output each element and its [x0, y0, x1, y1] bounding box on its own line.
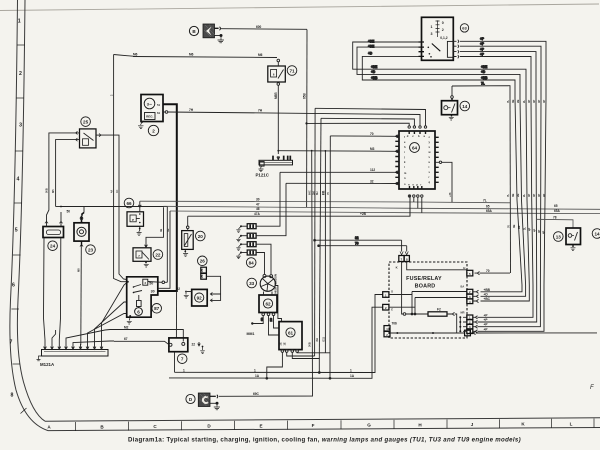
board MR connector pins — [459, 311, 488, 334]
svg-text:MR: MR — [461, 311, 465, 315]
svg-text:E: E — [391, 308, 393, 312]
svg-text:3: 3 — [431, 32, 433, 36]
svg-text:M8: M8 — [77, 268, 81, 272]
svg-text:7L: 7L — [506, 194, 510, 197]
relay 71 (charge warning) — [268, 59, 297, 85]
svg-text:8H: 8H — [315, 338, 319, 341]
svg-text:E11: E11 — [321, 190, 325, 195]
svg-text:F: F — [590, 385, 594, 391]
wire 70 to cluster left pin — [326, 132, 397, 353]
svg-text:2: 2 — [442, 28, 444, 32]
feed wires bracket left of switch — [353, 39, 526, 98]
wire 46 branch down to starter — [158, 211, 170, 288]
bottom border band with grid letters — [45, 418, 600, 431]
connector D (hatched) bottom — [186, 393, 220, 410]
svg-text:4P: 4P — [537, 100, 541, 103]
ground below connector B — [218, 37, 225, 43]
earth connectors 84 (x4) — [236, 224, 256, 268]
svg-text:1A: 1A — [350, 374, 355, 378]
svg-text:112: 112 — [370, 168, 375, 172]
svg-text:2M: 2M — [311, 191, 315, 195]
wires from relay 25 left down (50B / M5) — [45, 133, 76, 222]
bundle wire labels lower row — [507, 225, 546, 234]
svg-text:M6: M6 — [258, 53, 263, 57]
svg-text:7H: 7H — [189, 108, 194, 112]
svg-text:HIGH TENSION: HIGH TENSION — [274, 274, 278, 293]
svg-text:f: f — [404, 135, 405, 139]
svg-text:4P: 4P — [537, 194, 541, 197]
svg-text:2C: 2C — [269, 318, 273, 321]
svg-text:8: 8 — [11, 393, 14, 399]
svg-text:22: 22 — [177, 287, 181, 291]
cluster left pin terminals — [396, 135, 398, 137]
board BA connector pins — [461, 285, 491, 304]
svg-text:4P: 4P — [532, 100, 536, 103]
svg-text:L: L — [570, 421, 573, 426]
feed wires to board connectors — [314, 236, 407, 247]
svg-text:32: 32 — [370, 179, 374, 183]
wire 47 / 65 — [164, 202, 600, 209]
svg-text:69C: 69C — [308, 190, 312, 195]
svg-text:2E: 2E — [278, 342, 282, 345]
wire M3 from P121C to cluster — [278, 147, 396, 151]
svg-text:14: 14 — [594, 231, 600, 236]
wire M2 — [110, 325, 183, 341]
node MM1 — [247, 316, 264, 337]
diagnostic connector 26 — [198, 256, 221, 302]
svg-text:2L: 2L — [522, 194, 526, 197]
wire to cluster pin a from 65B node — [307, 123, 410, 126]
svg-text:2B: 2B — [260, 318, 264, 321]
svg-text:66: 66 — [126, 201, 132, 206]
thermal switch 66 — [124, 198, 143, 235]
svg-text:7: 7 — [181, 357, 184, 362]
svg-text:K: K — [396, 266, 398, 270]
svg-text:1: 1 — [350, 368, 352, 372]
svg-text:22: 22 — [155, 252, 161, 257]
svg-text:20: 20 — [198, 234, 204, 239]
border frame top line — [0, 4, 599, 11]
fuse box 24 — [43, 212, 64, 251]
caption — [128, 437, 521, 444]
svg-text:M6: M6 — [189, 53, 194, 57]
svg-text:47: 47 — [256, 202, 260, 206]
svg-text:1: 1 — [431, 25, 433, 29]
svg-text:32: 32 — [355, 236, 359, 240]
svg-text:5: 5 — [15, 228, 18, 234]
oil pressure warning switch 14 — [442, 96, 470, 120]
svg-text:2B: 2B — [516, 100, 520, 103]
svg-text:84: 84 — [249, 260, 255, 265]
svg-text:7L: 7L — [506, 100, 510, 103]
svg-text:1: 1 — [254, 368, 256, 372]
earth strip arrow terminals — [44, 344, 103, 350]
svg-text:7H: 7H — [258, 109, 263, 113]
svg-text:F: F — [312, 423, 315, 428]
svg-text:2: 2 — [152, 128, 155, 133]
svg-text:50B: 50B — [45, 188, 49, 193]
wire 67 — [114, 337, 169, 345]
svg-text:+BB: +BB — [484, 288, 491, 292]
svg-text:3: 3 — [19, 123, 22, 129]
svg-text:87: 87 — [154, 306, 160, 311]
bundle wire labels middle row — [506, 194, 546, 197]
svg-text:4B: 4B — [159, 229, 163, 232]
svg-text:2L: 2L — [523, 227, 527, 230]
svg-text:+2B: +2B — [360, 212, 367, 216]
svg-text:D: D — [391, 290, 393, 294]
svg-text:+36: +36 — [448, 192, 452, 197]
svg-text:6: 6 — [137, 309, 140, 314]
svg-text:M3: M3 — [370, 147, 375, 151]
svg-text:1: 1 — [183, 368, 185, 372]
svg-text:BOARD: BOARD — [415, 284, 436, 290]
svg-text:BA: BA — [461, 285, 465, 289]
wire 50 horizontal to solenoid switch 23 — [56, 206, 168, 283]
svg-text:MM1: MM1 — [247, 332, 255, 336]
svg-text:13: 13 — [556, 234, 562, 239]
board left pin 1 (wire 1) — [383, 290, 412, 298]
svg-text:61: 61 — [157, 111, 161, 115]
svg-text:64: 64 — [412, 145, 418, 150]
ignition feed unit 23 — [74, 216, 95, 345]
main harness bundle right side — [478, 98, 547, 331]
svg-text:67: 67 — [124, 337, 128, 341]
switched feed wires +P right of switch — [460, 37, 546, 98]
svg-text:51: 51 — [157, 103, 161, 107]
svg-text:P: P — [132, 218, 134, 222]
svg-text:F2: F2 — [437, 308, 441, 312]
svg-text:70: 70 — [355, 242, 359, 246]
svg-text:M121A: M121A — [40, 362, 55, 367]
svg-text:1A: 1A — [255, 374, 260, 378]
svg-text:2: 2 — [19, 71, 22, 77]
svg-text:600: 600 — [256, 25, 262, 29]
board top connectors 7 and 8 — [399, 240, 410, 261]
alternator 2 — [141, 95, 163, 136]
wire 7L with oil switch branch — [452, 82, 510, 99]
starter motor assembly 87 — [127, 277, 168, 324]
wire 46 / 65A — [170, 207, 600, 214]
connector B (hatched) top left — [189, 24, 222, 38]
svg-text:6: 6 — [12, 283, 15, 289]
distributor 33 — [247, 274, 276, 291]
svg-text:69C: 69C — [253, 392, 260, 396]
ignition module 62 — [259, 292, 277, 316]
svg-text:26: 26 — [200, 259, 206, 264]
left ruler strip — [10, 0, 48, 431]
svg-text:30B: 30B — [308, 342, 312, 347]
svg-text:71: 71 — [289, 68, 295, 73]
svg-text:78: 78 — [553, 215, 557, 219]
wire 600 — [221, 25, 307, 29]
svg-text:+D: +D — [481, 70, 486, 74]
wire 112 to cluster — [280, 168, 397, 172]
svg-text:4: 4 — [17, 177, 20, 183]
oil pressure switch 22 — [133, 207, 164, 267]
svg-text:+D: +D — [371, 70, 376, 74]
svg-text:7L: 7L — [481, 82, 485, 86]
cluster right pin terminal and wire +36 — [439, 161, 441, 163]
ignition coil 61 — [278, 322, 302, 353]
wire M5B from relay 71 down — [274, 85, 279, 151]
svg-text:2B: 2B — [516, 194, 520, 197]
svg-text:7L: 7L — [483, 199, 487, 203]
svg-text:E: E — [259, 423, 262, 428]
svg-text:92: 92 — [197, 295, 203, 300]
svg-text:+BE: +BE — [368, 44, 374, 48]
svg-text:bl: bl — [463, 266, 466, 270]
bundle wire labels top row — [506, 100, 546, 103]
wire 47A / +2B — [188, 198, 410, 217]
svg-text:46: 46 — [256, 207, 260, 211]
svg-text:706: 706 — [392, 322, 398, 326]
svg-text:65: 65 — [554, 204, 558, 208]
ground below alternator — [138, 121, 144, 129]
svg-text:t: t — [429, 165, 430, 169]
wires from module 62 to coil — [260, 316, 279, 336]
svg-text:24: 24 — [50, 244, 56, 249]
svg-text:3B: 3B — [512, 225, 516, 228]
fuel gauge sender 13 — [554, 228, 581, 251]
svg-text:30: 30 — [256, 197, 260, 201]
wire M6 — [133, 52, 277, 57]
svg-text:4P: 4P — [528, 228, 532, 231]
wire 69C — [219, 150, 313, 396]
svg-text:+BB: +BB — [371, 76, 378, 80]
svg-text:14: 14 — [462, 104, 468, 109]
svg-text:4A: 4A — [109, 190, 113, 193]
svg-text:+BB: +BB — [481, 76, 488, 80]
cluster bottom pin terminals and wires — [408, 195, 410, 197]
svg-text:70: 70 — [370, 132, 374, 136]
tachometer wire to cluster pin d — [311, 108, 425, 356]
svg-text:+BE: +BE — [371, 65, 377, 69]
svg-text:G: G — [367, 423, 371, 428]
svg-text:62: 62 — [265, 301, 271, 306]
cluster top pin terminals — [408, 126, 410, 128]
svg-text:P121C: P121C — [256, 173, 270, 178]
wire 32 to cluster — [286, 179, 397, 183]
svg-text:M6: M6 — [133, 52, 138, 56]
wire 65B vertical from 600 — [302, 30, 307, 208]
svg-text:4P: 4P — [533, 229, 537, 232]
coolant temperature sender 20 — [182, 216, 205, 256]
svg-text:REG.: REG. — [146, 115, 154, 119]
wire from relay 25 right up to M6 and down to starter — [101, 55, 133, 282]
wires from earth strip up-right — [52, 282, 128, 344]
svg-text:4P: 4P — [542, 100, 546, 103]
svg-text:4P: 4P — [527, 100, 531, 103]
instrument cluster 64 — [395, 126, 452, 216]
board left pin 2 (wire 1A) — [383, 304, 415, 311]
svg-text:2B: 2B — [517, 226, 521, 229]
svg-text:63: 63 — [462, 26, 467, 31]
wire 1A — [169, 307, 383, 378]
svg-text:Diagram1a: Typical starting,: Diagram1a: Typical starting, charging, i… — [128, 437, 521, 444]
svg-text:4P: 4P — [532, 194, 536, 197]
fuse/relay board — [389, 262, 467, 338]
svg-text:+BE: +BE — [368, 39, 374, 43]
svg-text:25: 25 — [83, 119, 89, 124]
wire 7H from alternator 61 to instrument panel pin c — [163, 108, 420, 126]
wire 78 to sensor 13 — [536, 215, 573, 228]
svg-text:+D: +D — [484, 292, 489, 296]
svg-text:+BC: +BC — [484, 297, 491, 301]
fuse F2 — [402, 262, 457, 334]
coil output wires — [266, 352, 331, 379]
svg-text:0: 0 — [442, 21, 444, 25]
svg-text:65A: 65A — [554, 209, 561, 213]
wire E11 vertical — [321, 150, 326, 353]
svg-text:4P: 4P — [542, 194, 546, 197]
svg-text:65A: 65A — [486, 209, 493, 213]
svg-text:J: J — [471, 422, 474, 427]
svg-text:70: 70 — [486, 269, 490, 273]
svg-text:8H: 8H — [315, 192, 319, 195]
board internal wire to pin 5 and wire 70 — [407, 262, 510, 277]
svg-text:22: 22 — [192, 342, 196, 346]
svg-text:4B: 4B — [166, 229, 170, 232]
wire 30 — [140, 197, 510, 203]
svg-text:4P: 4P — [527, 194, 531, 197]
svg-text:1E: 1E — [283, 342, 287, 345]
board output pin 4 bottom right — [465, 330, 597, 336]
svg-text:30: 30 — [151, 289, 155, 293]
high tension lead — [274, 274, 282, 322]
svg-text:23: 23 — [88, 247, 94, 252]
svg-text:65: 65 — [486, 205, 490, 209]
svg-text:3B: 3B — [511, 194, 515, 197]
svg-text:E11: E11 — [322, 336, 326, 341]
svg-text:FUSE/RELAY: FUSE/RELAY — [406, 276, 442, 282]
svg-text:r: r — [429, 175, 430, 179]
relay 25 (suppressor) — [76, 117, 101, 148]
ignition switch 63 — [419, 17, 469, 60]
svg-text:j: j — [403, 155, 405, 159]
TDC sensor 92 — [177, 287, 208, 306]
svg-text:65B: 65B — [302, 92, 306, 99]
svg-text:1: 1 — [18, 19, 21, 25]
svg-text:r: r — [420, 182, 421, 186]
svg-text:+BE: +BE — [481, 65, 487, 69]
svg-text:7: 7 — [10, 340, 13, 346]
svg-text:4P: 4P — [542, 231, 546, 234]
connector P121C — [256, 151, 293, 178]
svg-text:50: 50 — [67, 210, 71, 214]
svg-text:+D: +D — [368, 51, 373, 55]
wires from 84 connectors — [256, 172, 286, 274]
svg-text:0,1,2: 0,1,2 — [440, 36, 447, 40]
svg-text:47A: 47A — [254, 212, 261, 216]
svg-text:M2: M2 — [124, 325, 129, 329]
board internal wires to BA pins — [411, 292, 467, 315]
svg-text:4P: 4P — [537, 230, 541, 233]
svg-text:61: 61 — [288, 330, 294, 335]
wires from box 24 down to earth strip — [44, 238, 61, 344]
component circle at right edge — [592, 229, 600, 239]
svg-text:3B: 3B — [511, 100, 515, 103]
ignition wire to cluster pin b — [315, 118, 414, 358]
board connector 706 — [384, 322, 465, 337]
svg-text:2L: 2L — [522, 100, 526, 103]
battery junction box 7 — [169, 338, 205, 372]
svg-text:33: 33 — [249, 281, 255, 286]
svg-text:4C: 4C — [115, 190, 119, 193]
heavy cable from alternator 51 to starter and box 7 — [158, 104, 177, 338]
earth strip M121A — [37, 350, 109, 367]
svg-text:3∼: 3∼ — [147, 101, 153, 106]
svg-text:M5B: M5B — [274, 92, 278, 99]
wire 1 — [175, 295, 383, 373]
svg-text:M5: M5 — [51, 189, 55, 193]
